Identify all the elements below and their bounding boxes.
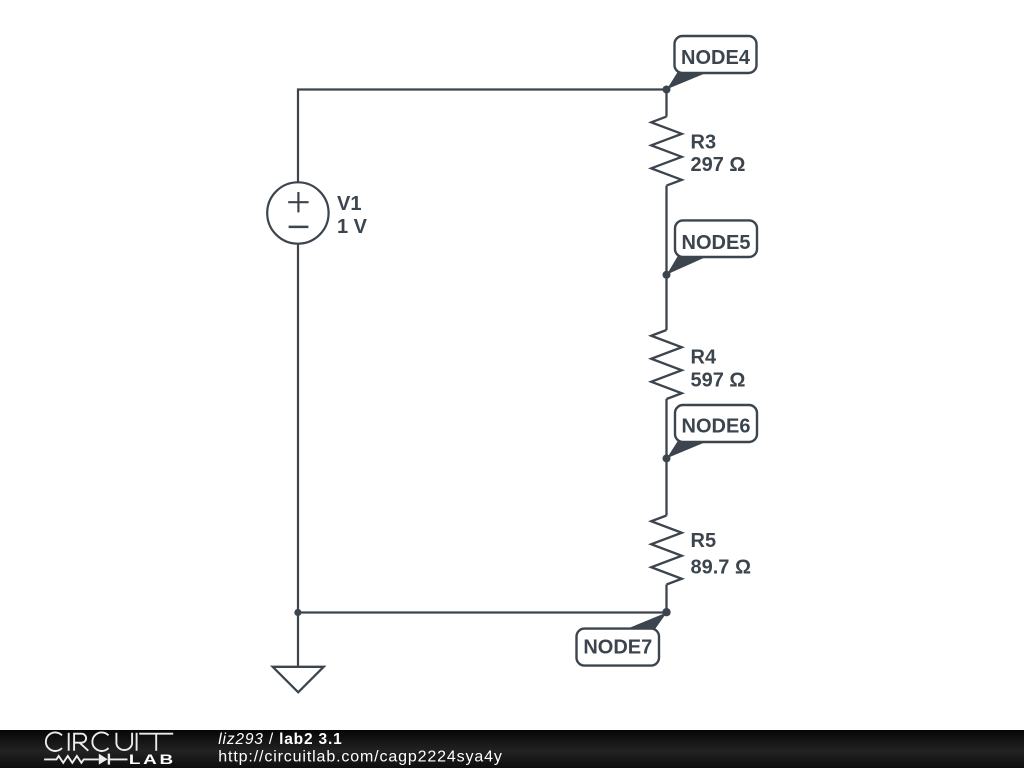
wire top rail from V1 to NODE4: [298, 90, 667, 183]
svg-text:597 Ω: 597 Ω: [691, 370, 746, 392]
logo resistor-diode symbol: [44, 754, 127, 765]
node NODE7: [577, 612, 667, 665]
wire R3 to R4: [665, 186, 667, 330]
svg-text:R3: R3: [691, 131, 717, 153]
voltage source V1: [267, 182, 328, 243]
node NODE4: [667, 36, 757, 89]
resistor R3: [651, 117, 682, 186]
svg-text:R5: R5: [691, 530, 717, 552]
junction NODE6: [663, 454, 671, 462]
CircuitLab logo wordmark CIRCUIT: [46, 732, 173, 751]
svg-text:http://circuitlab.com/cagp2224: http://circuitlab.com/cagp2224sya4y: [218, 748, 502, 765]
wire R5 to bottom rail: [665, 585, 667, 613]
wire ground stem: [297, 613, 299, 667]
node NODE5: [667, 220, 757, 274]
svg-text:NODE7: NODE7: [583, 636, 652, 658]
junction NODE4: [663, 86, 671, 94]
junction bottom left: [294, 609, 301, 616]
svg-text:LAB: LAB: [129, 752, 176, 768]
wire NODE4 to R3: [665, 90, 667, 117]
svg-text:NODE6: NODE6: [682, 416, 751, 438]
svg-text:NODE5: NODE5: [682, 232, 751, 254]
resistor R4: [651, 330, 682, 399]
svg-text:NODE4: NODE4: [681, 47, 751, 69]
svg-text:R4: R4: [691, 347, 717, 369]
wire bottom rail: [298, 611, 667, 613]
wire R4 to R5: [665, 399, 667, 516]
svg-text:297 Ω: 297 Ω: [691, 154, 746, 176]
wire left vertical from V1 bottom to bottom rail: [297, 244, 299, 613]
svg-text:V1: V1: [337, 193, 361, 215]
ground: [273, 667, 324, 693]
node NODE6: [667, 405, 757, 458]
junction NODE7: [662, 608, 670, 616]
svg-text:liz293 / lab2 3.1: liz293 / lab2 3.1: [218, 731, 342, 748]
junction NODE5: [663, 271, 671, 279]
svg-text:89.7 Ω: 89.7 Ω: [691, 556, 752, 578]
svg-text:1 V: 1 V: [337, 216, 368, 238]
resistor R5: [651, 516, 682, 585]
